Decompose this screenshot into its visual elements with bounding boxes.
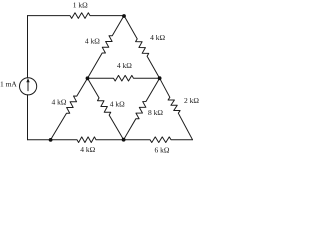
resistor 8 kOhm (mid-right node to bottom-center node) <box>124 78 160 140</box>
wire bottom-left (corner to node BL) <box>28 139 51 141</box>
svg-text:1 kΩ: 1 kΩ <box>73 1 88 10</box>
node bottom-center <box>122 138 126 142</box>
svg-text:8 kΩ: 8 kΩ <box>148 108 163 117</box>
resistor 6 kOhm (bottom-center to bottom-right) <box>124 137 193 143</box>
resistor 4 kOhm (bottom-left node to bottom-center node) <box>51 137 124 143</box>
svg-text:1 mA: 1 mA <box>0 80 17 89</box>
svg-text:4 kΩ: 4 kΩ <box>117 61 132 70</box>
node mid-left <box>86 76 90 80</box>
resistor 1 kOhm (top wire) <box>28 13 125 19</box>
svg-text:6 kΩ: 6 kΩ <box>155 146 170 155</box>
node mid-right <box>158 76 162 80</box>
svg-text:4 kΩ: 4 kΩ <box>85 37 100 46</box>
svg-text:4 kΩ: 4 kΩ <box>80 145 95 154</box>
node bottom-left <box>49 138 53 142</box>
resistor 2 kOhm (mid-right node to bottom-right corner) <box>160 78 193 140</box>
resistor 4 kOhm (apex to mid-left node) <box>88 16 125 79</box>
resistor 4 kOhm (apex to mid-right node) <box>124 16 160 79</box>
svg-text:4 kΩ: 4 kΩ <box>110 100 125 109</box>
current source 1 mA <box>20 78 37 95</box>
svg-text:4 kΩ: 4 kΩ <box>150 33 165 42</box>
svg-text:2 kΩ: 2 kΩ <box>184 96 199 105</box>
svg-text:4 kΩ: 4 kΩ <box>52 98 67 107</box>
resistor 4 kOhm (mid-left to mid-right horizontal) <box>88 75 160 81</box>
wire left vertical lower (current source to bottom-left corner) <box>27 95 29 140</box>
node apex <box>122 14 126 18</box>
wire left vertical upper (top-left corner to current source) <box>27 16 29 78</box>
resistor 4 kOhm (bottom-left node to mid-left node) <box>51 78 88 140</box>
resistor 4 kOhm (mid-left node to bottom-center node) <box>88 78 124 140</box>
